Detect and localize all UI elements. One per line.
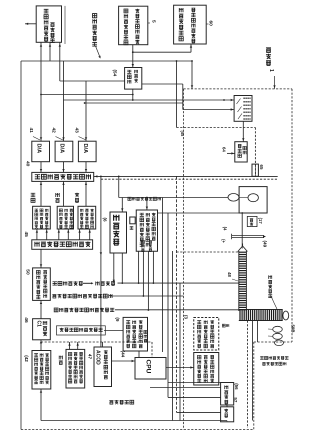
svg-text:60: 60 [208,21,214,27]
svg-text:40: 40 [25,161,31,167]
svg-text:41: 41 [28,128,34,134]
svg-text:(+: (+ [221,239,226,243]
svg-text:D/A: D/A [35,144,41,154]
svg-text:50: 50 [25,269,31,275]
svg-text:64: 64 [221,147,226,152]
svg-text:47: 47 [88,354,93,360]
svg-text:5: 5 [151,20,157,23]
svg-text:ACOD: ACOD [95,350,101,365]
svg-text:CPU: CPU [145,360,152,374]
svg-text:(54: (54 [113,70,118,77]
svg-text:(17: (17 [258,218,263,225]
svg-text:46: 46 [23,317,29,323]
svg-text:D/A: D/A [59,144,65,154]
svg-text:43: 43 [74,128,80,134]
svg-text:(3: (3 [184,315,189,319]
svg-text:(56: (56 [234,383,239,390]
svg-text:45: 45 [23,232,29,238]
svg-text:(49: (49 [262,241,267,248]
svg-text:(55: (55 [180,131,185,138]
svg-text:(9: (9 [115,317,120,322]
svg-text:48: 48 [227,272,232,277]
svg-text:(6: (6 [102,218,107,223]
svg-text:C1: C1 [36,321,42,328]
svg-text:1: 1 [268,69,274,72]
svg-text:42: 42 [51,128,57,134]
svg-text:D/A: D/A [82,144,88,154]
svg-text:57: 57 [233,397,238,402]
svg-text:65: 65 [259,165,264,170]
svg-text:(4: (4 [222,227,227,231]
svg-text:(42: (42 [24,355,29,362]
svg-text:59B: 59B [290,325,295,333]
svg-text:(44: (44 [120,351,125,358]
